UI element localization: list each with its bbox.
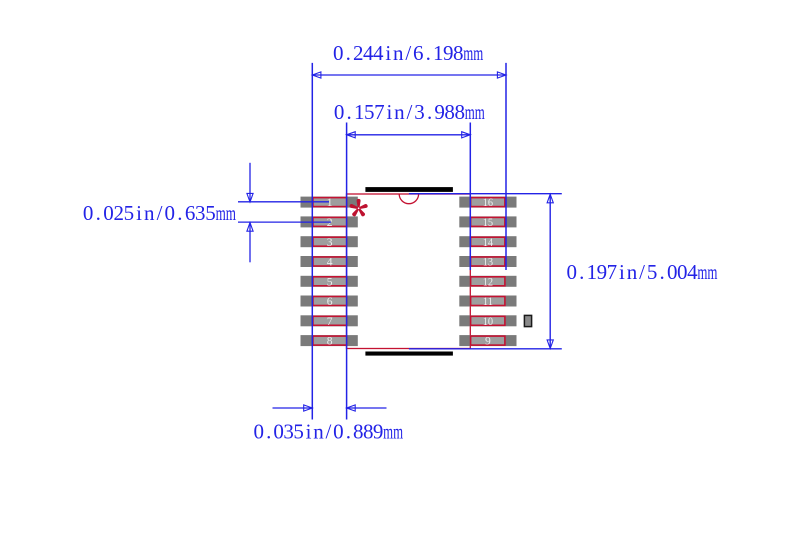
svg-text:.: . [660,260,665,284]
svg-text:0: 0 [164,201,175,225]
svg-text:n: n [394,100,405,124]
svg-text:6: 6 [327,295,333,308]
svg-text:1: 1 [433,41,444,65]
svg-text:.: . [347,100,352,124]
svg-text:0: 0 [677,260,688,284]
svg-text:16: 16 [483,196,494,209]
svg-text:9: 9 [434,100,445,124]
svg-text:.: . [346,41,351,65]
svg-text:/: / [326,420,332,444]
svg-text:i: i [385,41,391,65]
svg-text:7: 7 [607,260,618,284]
svg-text:15: 15 [483,216,494,229]
svg-text:0: 0 [333,41,344,65]
svg-text:9: 9 [373,420,384,444]
svg-text:i: i [136,201,142,225]
svg-text:0: 0 [103,201,114,225]
svg-text:n: n [627,260,638,284]
svg-text:m: m [463,41,473,65]
svg-text:6: 6 [413,41,424,65]
svg-text:.: . [96,201,101,225]
svg-text:11: 11 [483,295,494,308]
svg-text:0: 0 [254,420,265,444]
svg-text:8: 8 [453,41,464,65]
svg-text:1: 1 [327,196,333,209]
svg-text:2: 2 [353,41,364,65]
svg-text:.: . [426,41,431,65]
svg-text:.: . [177,201,182,225]
svg-text:1: 1 [354,100,365,124]
svg-text:m: m [226,201,236,225]
svg-text:i: i [306,420,312,444]
svg-text:5: 5 [205,201,216,225]
svg-text:/: / [405,41,411,65]
svg-text:8: 8 [363,420,374,444]
svg-text:12: 12 [483,275,494,288]
svg-text:9: 9 [443,41,454,65]
svg-text:8: 8 [454,100,465,124]
svg-text:m: m [473,41,483,65]
svg-text:n: n [313,420,324,444]
svg-text:9: 9 [485,335,491,348]
svg-text:5: 5 [647,260,658,284]
svg-text:i: i [386,100,392,124]
svg-text:0: 0 [667,260,678,284]
svg-text:3: 3 [327,236,333,249]
svg-text:i: i [619,260,625,284]
svg-text:0: 0 [333,420,344,444]
svg-text:0: 0 [566,260,577,284]
svg-text:7: 7 [327,315,333,328]
svg-text:7: 7 [374,100,385,124]
svg-text:1: 1 [587,260,598,284]
svg-text:.: . [346,420,351,444]
svg-text:10: 10 [483,315,494,328]
svg-text:5: 5 [124,201,135,225]
svg-text:.: . [579,260,584,284]
svg-text:8: 8 [444,100,455,124]
svg-text:5: 5 [364,100,375,124]
svg-text:3: 3 [283,420,294,444]
svg-text:0: 0 [83,201,94,225]
svg-text:m: m [697,260,707,284]
svg-text:4: 4 [373,41,384,65]
svg-text:0: 0 [334,100,345,124]
svg-text:14: 14 [483,236,494,249]
svg-text:m: m [393,420,403,444]
svg-text:.: . [266,420,271,444]
svg-text:8: 8 [353,420,364,444]
svg-text:6: 6 [185,201,196,225]
svg-text:m: m [707,260,717,284]
svg-text:4: 4 [327,256,333,269]
svg-text:5: 5 [293,420,304,444]
svg-text:9: 9 [597,260,608,284]
svg-text:2: 2 [113,201,124,225]
svg-text:0: 0 [273,420,284,444]
svg-text:m: m [383,420,393,444]
svg-text:13: 13 [483,256,494,269]
svg-text:m: m [465,100,475,124]
svg-text:5: 5 [327,275,333,288]
svg-text:/: / [407,100,413,124]
svg-text:m: m [216,201,226,225]
svg-text:n: n [393,41,404,65]
svg-text:m: m [475,100,485,124]
svg-text:3: 3 [195,201,206,225]
svg-text:n: n [144,201,155,225]
svg-text:8: 8 [327,335,333,348]
svg-text:/: / [639,260,645,284]
svg-text:3: 3 [414,100,425,124]
svg-text:/: / [157,201,163,225]
svg-text:.: . [427,100,432,124]
